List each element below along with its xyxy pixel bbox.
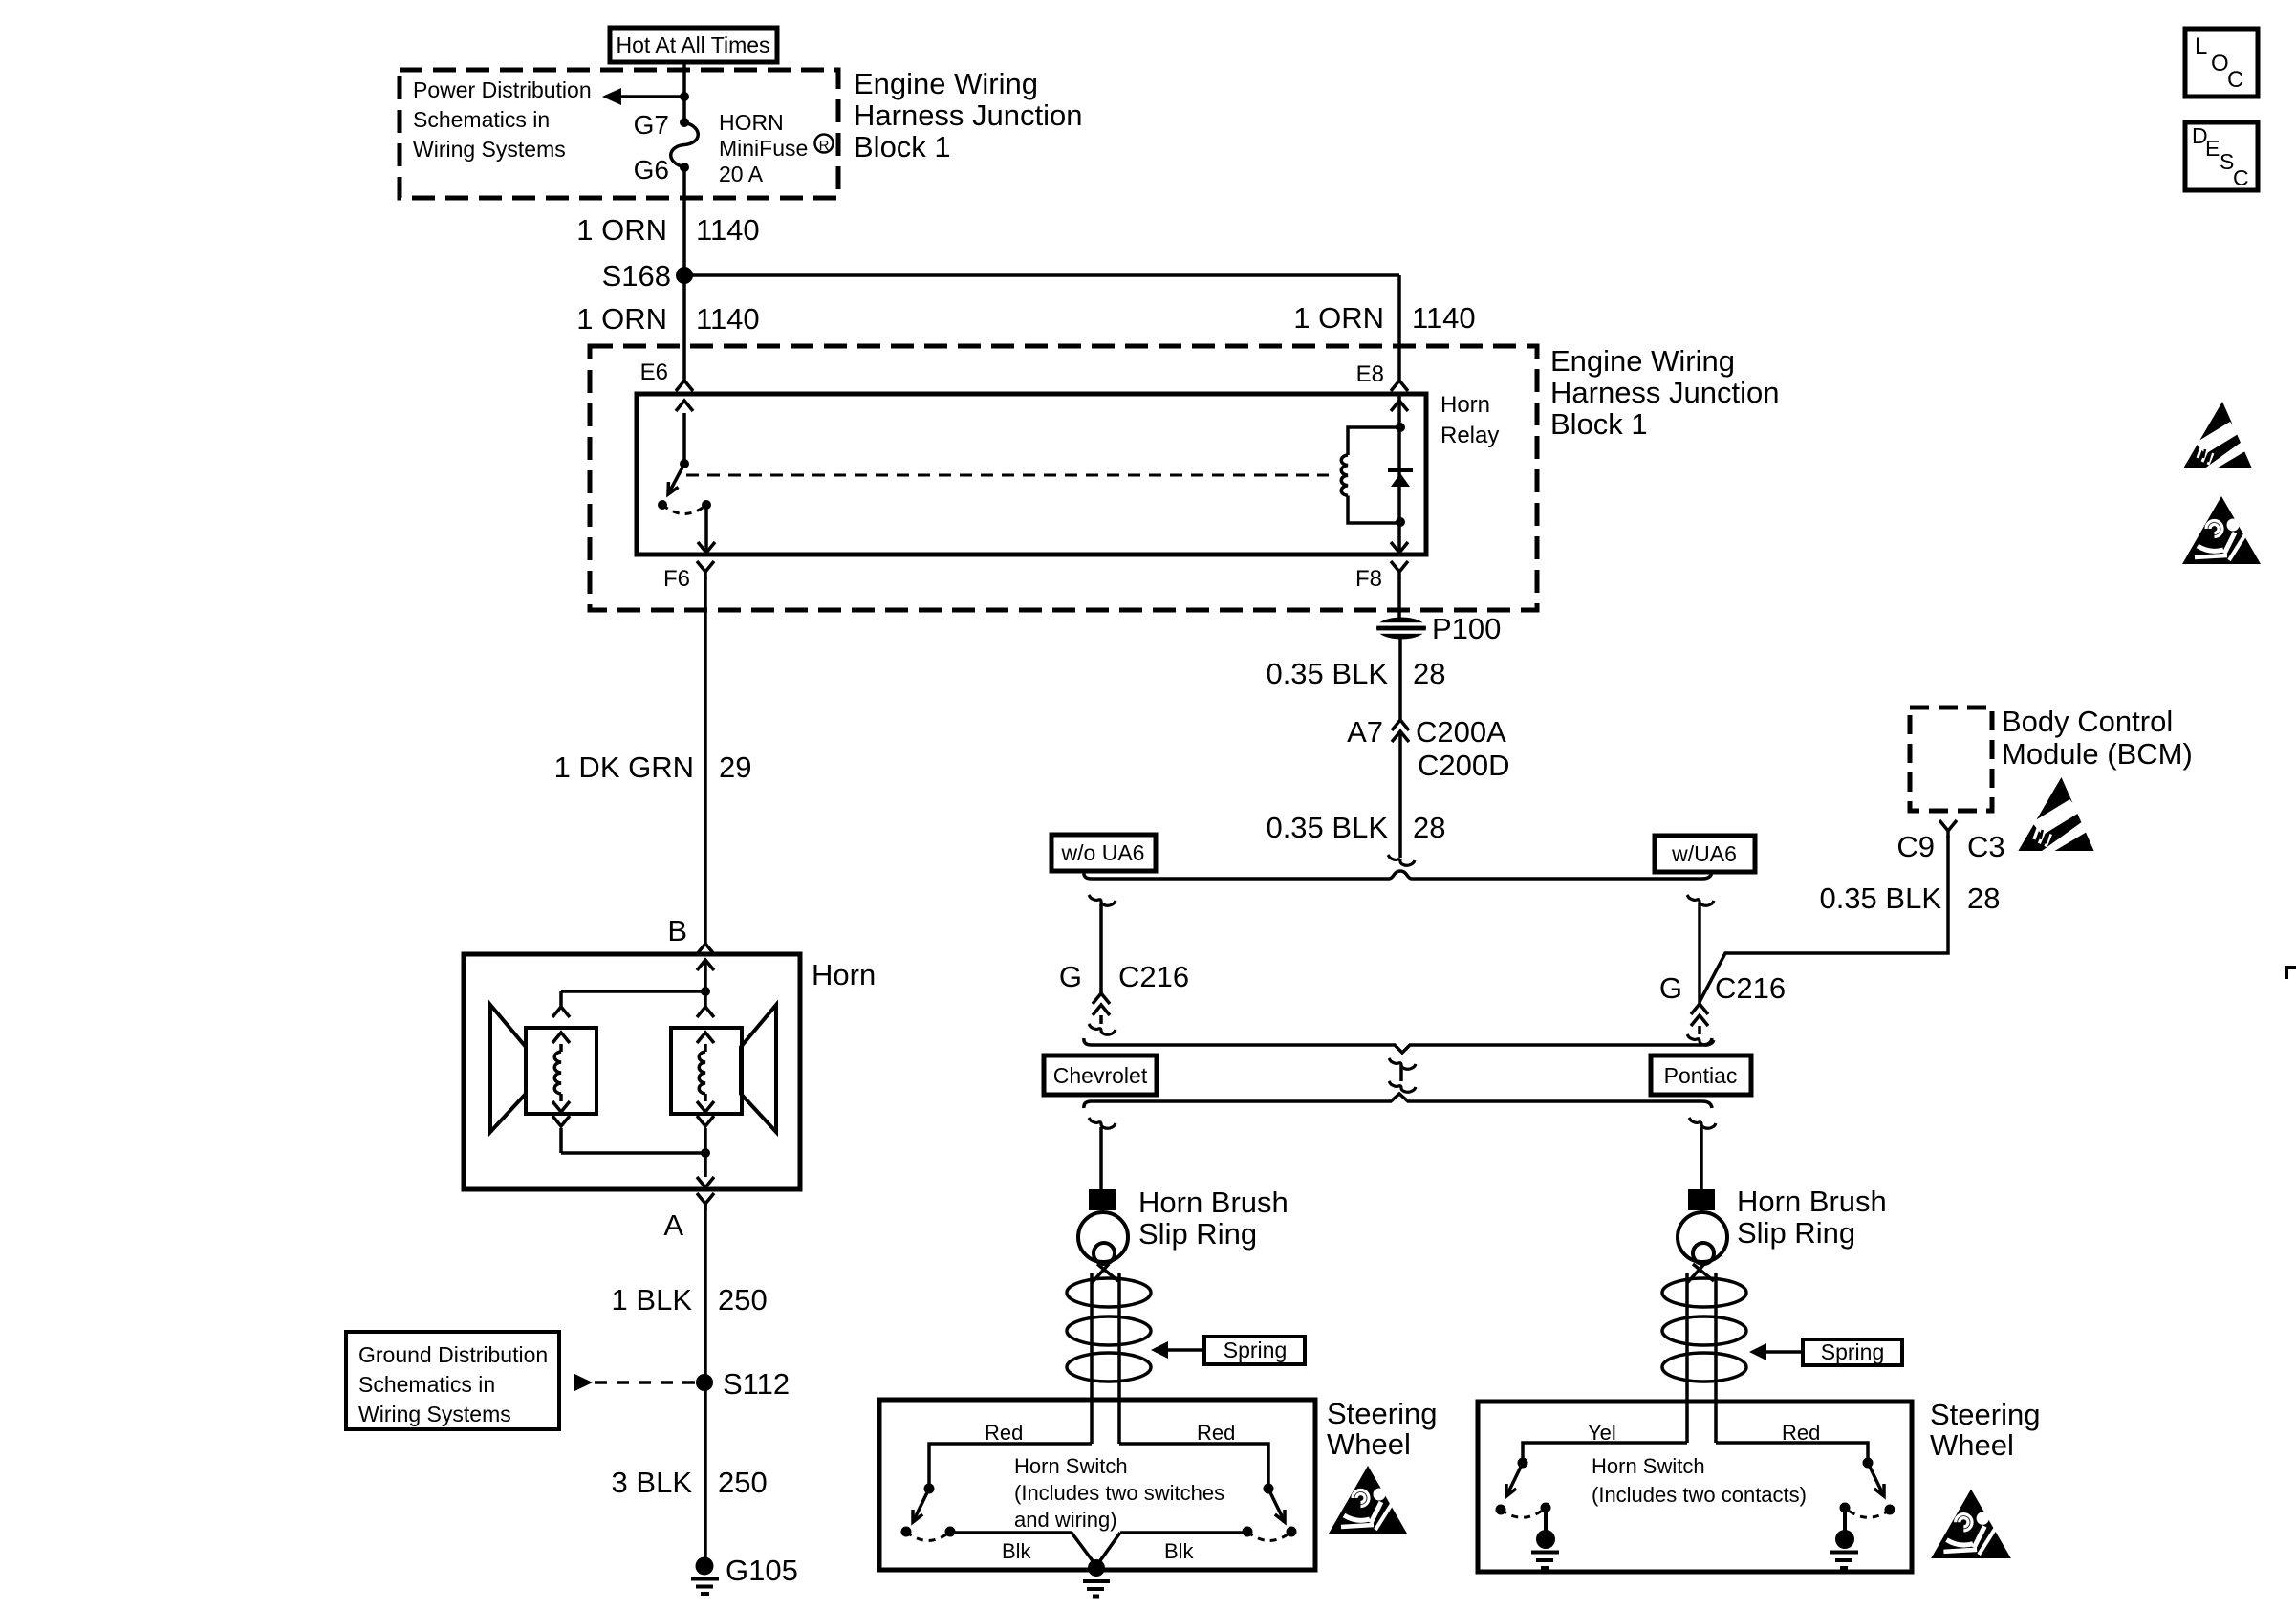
svg-text:28: 28 <box>1413 657 1445 690</box>
svg-text:Horn Brush: Horn Brush <box>1138 1186 1289 1219</box>
Pontiac left ground stem node <box>1541 1503 1551 1513</box>
pin F6 connector chevron <box>697 561 714 572</box>
icon SIR caution (right margin) <box>2182 496 2261 564</box>
svg-text:(Includes two switches: (Includes two switches <box>1014 1481 1224 1505</box>
svg-text:G7: G7 <box>634 110 669 140</box>
Chevrolet ground node at box bottom <box>1088 1559 1105 1577</box>
Chevrolet right switch pivot node <box>1264 1484 1274 1494</box>
wire break hook (w/o UA6 branch bottom) <box>1089 1024 1116 1034</box>
arrow to Power Distribution <box>619 95 684 98</box>
option brace (top) <box>1084 871 1712 879</box>
Pontiac right ground ball <box>1835 1530 1854 1549</box>
wire S168 to E8 (horizontal) <box>684 273 1399 277</box>
horn right coil wire up arrow <box>704 1044 707 1052</box>
wire F6 down to horn pin B <box>704 577 707 943</box>
horn left branch wire <box>559 991 563 1007</box>
Chevrolet left switch output node <box>945 1527 956 1537</box>
right edge fragment <box>2286 968 2296 979</box>
horn right branch lower wire <box>704 1128 707 1153</box>
svg-text:L: L <box>2195 33 2207 59</box>
svg-text:G: G <box>1659 971 1682 1005</box>
svg-text:C: C <box>2227 67 2243 93</box>
Pontiac left ground ball <box>1536 1530 1555 1549</box>
svg-text:Power Distribution: Power Distribution <box>413 77 592 102</box>
Pontiac right switch contact node <box>1885 1505 1895 1515</box>
wire below C216 (right) <box>1698 1026 1701 1034</box>
Pontiac slip ring spring coil <box>1662 1278 1746 1307</box>
wire fuse G6 down to S168 <box>682 167 686 275</box>
svg-text:Spring: Spring <box>1821 1339 1884 1364</box>
svg-text:1 ORN: 1 ORN <box>576 302 667 336</box>
icon SIR caution (left steering wheel) <box>1329 1466 1407 1534</box>
horn right coil L (element) <box>699 1052 705 1094</box>
wire BCM to C216 (right) <box>1700 836 1948 1002</box>
connector chevron below BCM <box>1939 820 1957 831</box>
Pontiac horn brush (black square) <box>1688 1189 1715 1210</box>
horn feed wire with up arrow <box>704 961 707 991</box>
svg-text:Red: Red <box>985 1421 1023 1445</box>
Chevrolet left switch blade <box>913 1489 929 1522</box>
relay output wire with down arrow <box>704 505 708 552</box>
corner box LOC <box>2185 29 2258 97</box>
svg-text:Block 1: Block 1 <box>1550 407 1648 441</box>
Pontiac left switch contact node <box>1496 1505 1506 1515</box>
svg-text:S112: S112 <box>723 1367 790 1401</box>
relay U Horn Relay box <box>637 394 1426 555</box>
horn right coil connector chevron (top) <box>697 1007 714 1017</box>
svg-text:250: 250 <box>718 1283 768 1316</box>
dashed box: Engine Wiring Harness Junction Block 1 (relay block) <box>590 346 1537 610</box>
Pontiac right ground symbol <box>1830 1551 1858 1555</box>
Chevrolet horn switch left feed wire <box>929 1444 1092 1485</box>
svg-text:Wheel: Wheel <box>1930 1428 2014 1462</box>
relay coil bottom junction node <box>1396 517 1405 527</box>
Chevrolet slip ring wires <box>1090 1273 1094 1444</box>
horn left coil L (element) <box>554 1052 561 1094</box>
svg-text:Harness Junction: Harness Junction <box>1550 376 1780 409</box>
svg-text:0.35 BLK: 0.35 BLK <box>1266 811 1388 844</box>
svg-text:E6: E6 <box>640 359 668 385</box>
svg-text:HORN: HORN <box>719 110 784 135</box>
svg-text:1140: 1140 <box>696 302 760 336</box>
svg-text:Spring: Spring <box>1224 1338 1287 1362</box>
horn internal node B side <box>701 987 710 996</box>
diode CR1 across relay coil <box>1388 468 1413 472</box>
wire break hook above Pontiac slip ring <box>1689 1118 1716 1128</box>
svg-text:1 ORN: 1 ORN <box>576 213 667 247</box>
wire break hook above option brace <box>1388 855 1415 865</box>
Spring label box (left) <box>1204 1337 1305 1364</box>
splice node S112 <box>696 1374 713 1391</box>
brand label box Chevrolet <box>1044 1055 1157 1095</box>
option label box w/o UA6 <box>1051 835 1156 871</box>
svg-text:S168: S168 <box>602 259 671 293</box>
Spring arrow (right) <box>1766 1350 1803 1354</box>
horn left coil box <box>526 1028 596 1114</box>
svg-text:A7: A7 <box>1347 715 1383 749</box>
grommet P100 (symbol) <box>1376 618 1426 640</box>
relay switch common wire with up arrow <box>682 413 686 464</box>
relay E8-F8 internal wire with arrows <box>1397 413 1401 541</box>
svg-text:Horn Switch: Horn Switch <box>1014 1454 1128 1478</box>
svg-text:C9: C9 <box>1896 830 1935 863</box>
wire C200 down to option split <box>1398 732 1402 858</box>
svg-text:1 ORN: 1 ORN <box>1293 301 1384 335</box>
svg-text:0.35 BLK: 0.35 BLK <box>1266 657 1388 690</box>
relay coil L1 (element) <box>1341 455 1348 495</box>
svg-text:Engine Wiring: Engine Wiring <box>854 67 1038 100</box>
horn right speaker cone <box>741 1005 776 1132</box>
Pontiac right switch blade <box>1868 1463 1884 1496</box>
svg-text:Horn Brush: Horn Brush <box>1737 1185 1887 1218</box>
Chevrolet right switch output node <box>1243 1527 1253 1537</box>
wire break hook (w/UA6 branch bottom) <box>1687 1034 1714 1045</box>
Chevrolet right switch blade <box>1268 1489 1285 1522</box>
relay switch dashed throw arc <box>662 505 706 514</box>
svg-text:Horn Switch: Horn Switch <box>1592 1454 1705 1478</box>
wire w/o UA6 branch <box>1099 903 1103 994</box>
svg-text:Engine Wiring: Engine Wiring <box>1550 344 1735 378</box>
wire from Hot At All Times box down to fuse <box>682 62 686 124</box>
connector C216 double chevron (left) <box>1093 993 1110 1004</box>
svg-text:Body Control: Body Control <box>2002 705 2173 738</box>
svg-text:A: A <box>663 1208 683 1242</box>
svg-text:P100: P100 <box>1432 612 1501 645</box>
Pontiac horn switch right feed wire <box>1716 1443 1868 1459</box>
svg-text:(Includes two contacts): (Includes two contacts) <box>1592 1483 1807 1507</box>
pin F8 connector chevron <box>1391 561 1408 572</box>
relay coil branch top wire <box>1348 427 1400 455</box>
horn internal node A side <box>701 1148 710 1158</box>
power label box 'Hot At All Times' <box>610 28 777 62</box>
svg-text:C: C <box>2233 165 2249 190</box>
wire F8 to P100 <box>1397 577 1401 619</box>
Chevrolet steering wheel box <box>879 1400 1315 1570</box>
svg-text:Schematics in: Schematics in <box>413 107 550 132</box>
svg-text:F8: F8 <box>1355 566 1382 592</box>
svg-text:Slip Ring: Slip Ring <box>1737 1216 1855 1250</box>
Chevrolet horn switch right feed wire <box>1119 1444 1268 1485</box>
icon ESD warning (BCM) <box>2018 777 2093 852</box>
svg-text:Steering: Steering <box>1930 1398 2040 1431</box>
wire w/UA6 branch <box>1698 903 1701 1004</box>
Chevrolet right switch dashed arc <box>1247 1532 1291 1541</box>
Pontiac right switch dashed arc <box>1846 1509 1890 1517</box>
svg-text:B: B <box>667 914 687 947</box>
Chevrolet ground symbol <box>1083 1579 1110 1583</box>
svg-text:1140: 1140 <box>1412 301 1476 335</box>
svg-text:29: 29 <box>719 751 751 784</box>
Pontiac left ground symbol <box>1531 1551 1559 1555</box>
svg-text:1 DK GRN: 1 DK GRN <box>554 751 694 784</box>
horn left branch lower wire <box>559 1128 563 1153</box>
Spring label box (right) <box>1803 1339 1902 1365</box>
Chevrolet left switch dashed arc <box>906 1532 950 1541</box>
svg-text:Block 1: Block 1 <box>854 130 951 163</box>
wire S168 down to E6 <box>682 275 686 381</box>
horn output wire with down arrow <box>704 1153 707 1177</box>
fuse F HORN MiniFuse 20 A (element) <box>680 118 689 127</box>
svg-text:and wiring): and wiring) <box>1014 1508 1117 1532</box>
option label box w/UA6 <box>1655 836 1755 872</box>
svg-text:20 A: 20 A <box>719 162 764 186</box>
wire break hook above Chevrolet slip ring <box>1089 1118 1116 1128</box>
icon ESD warning (right margin) <box>2183 402 2252 469</box>
svg-text:Wiring Systems: Wiring Systems <box>358 1402 511 1426</box>
svg-text:Red: Red <box>1197 1421 1235 1445</box>
svg-text:Wheel: Wheel <box>1327 1427 1411 1461</box>
horn right coil connector chevron (bottom) <box>697 1116 714 1126</box>
horn left coil connector chevron (bottom) <box>552 1116 570 1126</box>
relay output contact node <box>702 500 711 510</box>
junction node above fuse <box>680 92 689 101</box>
svg-text:G6: G6 <box>634 155 669 185</box>
svg-text:Pontiac: Pontiac <box>1664 1063 1738 1088</box>
wire break hooks between braces <box>1389 1058 1416 1069</box>
relay internal dashed actuation line <box>686 474 1329 477</box>
Chevrolet right switch contact node <box>1287 1527 1297 1537</box>
svg-text:28: 28 <box>1967 881 2000 915</box>
svg-text:Hot At All Times: Hot At All Times <box>616 33 769 57</box>
svg-text:Harness Junction: Harness Junction <box>854 98 1083 132</box>
horn internal top crosswire <box>561 990 705 993</box>
horn right coil box <box>671 1028 742 1114</box>
icon SIR caution (right steering wheel) <box>1931 1490 2011 1558</box>
horn internal bottom crosswire <box>561 1151 705 1155</box>
svg-text:G105: G105 <box>726 1554 798 1587</box>
Pontiac right switch pivot node <box>1863 1458 1874 1469</box>
svg-text:Chevrolet: Chevrolet <box>1053 1063 1148 1088</box>
option brace (bottom) <box>1084 1094 1712 1108</box>
Spring arrow (left) <box>1168 1348 1204 1352</box>
pin E6 connector chevron <box>676 381 693 391</box>
Chevrolet ground V wires <box>1072 1533 1120 1566</box>
dashed box: Engine Wiring Harness Junction Block 1 (fuse block) <box>400 70 838 198</box>
svg-text:Relay: Relay <box>1440 423 1499 448</box>
horn left speaker cone <box>490 1005 526 1132</box>
horn left coil wire up arrow <box>559 1044 563 1052</box>
svg-text:1 BLK: 1 BLK <box>612 1283 693 1316</box>
Chevrolet blk wire left <box>950 1531 1072 1534</box>
Chevrolet blk wire right <box>1120 1531 1247 1534</box>
option brace (middle) <box>1084 1038 1712 1053</box>
pin A connector chevron <box>697 1193 714 1204</box>
svg-text:C200D: C200D <box>1418 749 1510 782</box>
relay switch pivot node <box>680 459 689 468</box>
Chevrolet horn brush (black square) <box>1089 1189 1116 1210</box>
arrow from Ground Distribution note <box>574 1374 593 1391</box>
relay switch NO contact node <box>658 500 667 510</box>
wire P100 to C200 connector <box>1398 639 1402 721</box>
wire right branch down to E8 <box>1397 275 1401 381</box>
svg-text:O: O <box>2211 51 2229 76</box>
Pontiac left ground stem <box>1544 1508 1548 1531</box>
Chevrolet left switch pivot node <box>924 1484 935 1494</box>
svg-text:Module (BCM): Module (BCM) <box>2002 737 2193 771</box>
relay coil top junction node <box>1396 423 1405 432</box>
horn component box <box>464 954 800 1189</box>
Pontiac left switch pivot node <box>1518 1458 1528 1469</box>
splice node S168 <box>676 267 693 284</box>
horn left coil connector chevron (top) <box>552 1007 570 1017</box>
svg-text:28: 28 <box>1413 811 1445 844</box>
relay switch blade with arrowhead <box>668 464 684 494</box>
connector C216 double chevron (right) <box>1691 1004 1708 1014</box>
svg-text:C216: C216 <box>1118 960 1189 993</box>
svg-text:E: E <box>2205 136 2220 161</box>
wire A down to G105 <box>704 1205 707 1557</box>
Pontiac right ground stem node <box>1840 1503 1851 1513</box>
wire to Chevrolet horn brush <box>1099 1127 1103 1190</box>
horn left coil wire down arrow <box>559 1094 563 1101</box>
Pontiac left switch blade <box>1506 1463 1523 1496</box>
brand label box Pontiac <box>1651 1055 1751 1095</box>
wire to Pontiac horn brush <box>1700 1127 1703 1189</box>
svg-text:G: G <box>1059 960 1082 993</box>
wire break hook (w/UA6 branch top) <box>1687 895 1714 905</box>
svg-text:w/UA6: w/UA6 <box>1671 841 1737 866</box>
corner box DESC <box>2185 122 2258 190</box>
Chevrolet left switch contact node <box>901 1527 912 1537</box>
svg-text:3 BLK: 3 BLK <box>612 1466 693 1499</box>
ground G105 (symbol) <box>696 1557 714 1576</box>
note box Ground Distribution Schematics in Wiring Systems <box>346 1332 559 1429</box>
wire below C216 (left) <box>1099 1015 1103 1024</box>
pin E8 connector chevron <box>1391 381 1408 391</box>
horn right branch wire <box>704 991 707 1007</box>
svg-text:C3: C3 <box>1967 830 2005 863</box>
svg-text:Blk: Blk <box>1002 1539 1032 1563</box>
svg-text:R: R <box>819 138 830 154</box>
relay coil branch bottom wire <box>1348 496 1400 524</box>
Pontiac horn switch left feed wire <box>1523 1443 1687 1459</box>
svg-text:Wiring Systems: Wiring Systems <box>413 137 566 162</box>
horn right coil wire down arrow <box>704 1094 707 1101</box>
svg-text:F6: F6 <box>663 566 690 592</box>
Pontiac left switch dashed arc <box>1501 1509 1545 1517</box>
connector C200 double chevron <box>1392 720 1409 730</box>
Pontiac steering wheel box <box>1478 1402 1912 1572</box>
pin B connector chevron <box>697 944 714 954</box>
svg-text:Blk: Blk <box>1164 1539 1195 1563</box>
svg-text:250: 250 <box>718 1466 768 1499</box>
svg-text:Schematics in: Schematics in <box>358 1372 495 1397</box>
dashed leader to S112 <box>595 1381 695 1384</box>
svg-text:1140: 1140 <box>696 213 760 247</box>
svg-text:E8: E8 <box>1356 361 1384 387</box>
svg-text:w/o UA6: w/o UA6 <box>1061 840 1145 865</box>
svg-text:Horn: Horn <box>1440 392 1490 418</box>
Chevrolet slip ring spring coil <box>1067 1278 1151 1307</box>
svg-text:0.35 BLK: 0.35 BLK <box>1819 881 1941 915</box>
svg-text:C200A: C200A <box>1416 715 1506 749</box>
svg-text:Slip Ring: Slip Ring <box>1138 1217 1257 1251</box>
svg-text:C216: C216 <box>1715 971 1786 1005</box>
svg-text:Ground Distribution: Ground Distribution <box>358 1342 548 1367</box>
svg-text:Steering: Steering <box>1327 1397 1437 1430</box>
Pontiac slip ring wires <box>1685 1273 1689 1443</box>
dashed box Body Control Module (BCM) <box>1910 707 1992 811</box>
svg-text:MiniFuse: MiniFuse <box>719 136 808 161</box>
svg-text:Horn: Horn <box>812 958 876 991</box>
wire break hook (w/o UA6 branch top) <box>1089 895 1116 905</box>
Pontiac right ground stem <box>1843 1508 1847 1531</box>
